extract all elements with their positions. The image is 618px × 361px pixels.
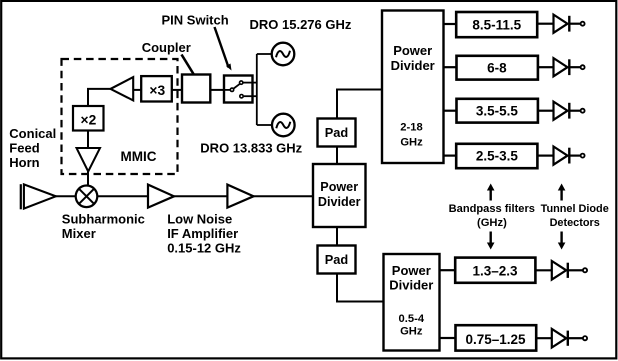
svg-text:DRO 15.276 GHz: DRO 15.276 GHz (250, 17, 352, 32)
svg-text:Divider: Divider (389, 278, 433, 293)
svg-text:GHz: GHz (400, 326, 423, 338)
svg-text:0.15-12 GHz: 0.15-12 GHz (167, 240, 241, 255)
svg-text:(GHz): (GHz) (477, 217, 507, 229)
svg-text:Low Noise: Low Noise (167, 211, 232, 226)
svg-text:Coupler: Coupler (142, 40, 191, 55)
svg-text:Tunnel Diode: Tunnel Diode (541, 203, 609, 215)
svg-text:0.5-4: 0.5-4 (399, 313, 425, 325)
svg-text:MMIC: MMIC (121, 149, 157, 164)
svg-text:DRO 13.833 GHz: DRO 13.833 GHz (200, 141, 302, 156)
svg-text:2.5-3.5: 2.5-3.5 (476, 149, 519, 164)
svg-text:3.5-5.5: 3.5-5.5 (476, 104, 519, 119)
svg-text:Divider: Divider (391, 58, 435, 73)
svg-text:2-18: 2-18 (400, 122, 422, 134)
svg-text:Feed: Feed (9, 141, 39, 156)
svg-text:0.75–1.25: 0.75–1.25 (465, 332, 526, 347)
svg-text:Divider: Divider (318, 195, 361, 209)
svg-text:Horn: Horn (9, 155, 39, 170)
svg-text:Pad: Pad (325, 125, 348, 140)
svg-text:Mixer: Mixer (62, 226, 96, 241)
svg-text:Detectors: Detectors (550, 217, 600, 229)
svg-text:Power: Power (392, 263, 431, 278)
svg-text:8.5-11.5: 8.5-11.5 (472, 17, 521, 32)
svg-text:Subharmonic: Subharmonic (62, 212, 145, 227)
svg-text:6-8: 6-8 (487, 61, 507, 76)
svg-text:Power: Power (393, 43, 432, 58)
svg-text:Conical: Conical (9, 126, 56, 141)
svg-text:1.3–2.3: 1.3–2.3 (472, 263, 518, 278)
svg-text:×3: ×3 (149, 83, 165, 98)
svg-text:×2: ×2 (81, 112, 97, 127)
svg-text:Power: Power (320, 180, 358, 194)
svg-text:IF Amplifier: IF Amplifier (167, 226, 238, 241)
svg-text:Pad: Pad (325, 252, 348, 267)
svg-text:PIN Switch: PIN Switch (162, 13, 229, 28)
svg-text:GHz: GHz (400, 137, 423, 149)
svg-text:Bandpass filters: Bandpass filters (449, 203, 535, 215)
